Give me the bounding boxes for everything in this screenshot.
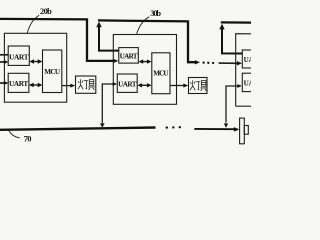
wire: leader line 70 [8,130,19,138]
wire: U5 to bottom bus double arrow [102,84,113,123]
wire: MCU to lamp arrow (module 30b) [170,85,184,87]
svg-text:20b: 20b [40,7,52,16]
svg-text:UART: UART [9,80,28,88]
svg-text:30b: 30b [150,9,161,18]
lamp box 灯具 (module 20b) [76,76,96,93]
丁 part [84,80,88,82]
wire: leader line 20b [27,15,39,33]
node: arrowhead into UART of module 30b [113,59,118,63]
具 [89,80,94,86]
bus 70: bottom bus right segment with arrow into terminator [194,128,234,130]
module 30b outer box [113,35,176,105]
MCU U6 (module 30b) [152,53,170,94]
terminator plug on bus 70 [240,118,245,144]
UART U7 (module 40b upper) [242,50,257,68]
wire: U5 to MCU double arrow [141,84,149,86]
wire: top bus right segment to image edge [221,21,251,24]
UART U1 (module 20b upper) [8,46,29,65]
灯 fire radical [80,79,82,86]
wire: U8 to bottom bus double arrow [226,86,238,123]
svg-text:UART: UART [244,56,251,64]
node: arrowhead at bus break [195,60,200,64]
node: ellipsis dots mid-right [202,61,204,63]
svg-text:UART: UART [120,53,138,61]
svg-text:MCU: MCU [153,70,169,78]
wire: U2 to MCU double arrow [32,84,39,86]
UART U2 (module 20b lower) [8,73,29,92]
wire: top bus from left edge into module 30b RX [0,19,114,61]
svg-text:UART: UART [118,80,137,88]
module 20b outer box [4,33,66,102]
wire: MCU to lamp arrow (module 20b) [62,85,71,87]
wire: top bus from module 30b toward next module [98,20,196,62]
wire: U1 to MCU double arrow [33,61,40,63]
MCU U3 (module 20b) [43,50,62,93]
UART U4 (module 30b upper) [119,48,139,64]
wire: U1 RX stub from image left edge [0,61,5,63]
svg-text:UART: UART [244,80,251,88]
UART U8 (module 40b lower) [242,73,257,91]
svg-text:70: 70 [24,134,32,143]
bus 70: bottom bus left segment [0,128,156,130]
UART U5 (module 30b lower) [117,74,137,92]
svg-text:MCU: MCU [44,68,61,76]
node: ellipsis dots bottom [166,126,168,128]
wire: U4 to MCU double arrow [142,61,149,63]
module 40b outer box (partial, right) [236,34,251,107]
wire: U2 bus stub from image left edge [0,82,5,84]
wire: U7 TX up to top bus with up arrow [222,29,242,54]
svg-text:UART: UART [9,52,29,61]
wire: U1 TX stub to image left edge [0,54,8,56]
lamp box 灯具 (module 30b) [189,78,208,94]
wire: RX into U7 from ellipsis [219,62,238,64]
wire: U4 TX up to top bus with up arrow [99,26,119,51]
wire: leader line 30b [137,17,150,34]
